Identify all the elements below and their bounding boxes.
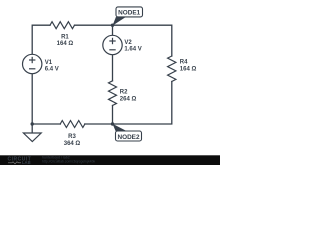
svg-text:NODE2: NODE2 bbox=[117, 134, 139, 141]
resistor R2 bbox=[109, 81, 117, 106]
svg-text:V1: V1 bbox=[45, 60, 53, 66]
resistor R4 bbox=[168, 56, 176, 82]
svg-text:R4: R4 bbox=[180, 59, 188, 65]
voltage source V2 bbox=[103, 35, 122, 54]
svg-text:R3: R3 bbox=[68, 134, 76, 140]
footer bar bbox=[0, 155, 220, 165]
junction ground node bbox=[31, 122, 34, 125]
resistor R3 bbox=[60, 121, 85, 128]
wire R2 to bottom junction bbox=[112, 106, 114, 125]
svg-text:NODE1: NODE1 bbox=[118, 10, 140, 17]
svg-text:V2: V2 bbox=[124, 40, 132, 46]
junction node B bottom bbox=[111, 122, 114, 125]
svg-text:R2: R2 bbox=[120, 89, 128, 95]
wire V2 to R2 bbox=[112, 55, 114, 81]
svg-text:6.4 V: 6.4 V bbox=[45, 66, 59, 72]
ground bbox=[23, 133, 41, 142]
svg-text:164 Ω: 164 Ω bbox=[57, 41, 74, 47]
node NODE1 flag bbox=[113, 7, 143, 26]
ground stub bbox=[31, 124, 33, 133]
voltage source V1 bbox=[23, 54, 42, 73]
wire R1 to top-right corner bbox=[75, 25, 172, 56]
wire R3 to ground junction bbox=[32, 74, 60, 124]
resistor R1 bbox=[50, 22, 75, 29]
svg-text:164 Ω: 164 Ω bbox=[180, 66, 197, 72]
junction node A top bbox=[111, 24, 114, 27]
svg-text:LAB: LAB bbox=[22, 160, 31, 165]
svg-text:http://circuitlab.com/c6qrcgeh: http://circuitlab.com/c6qrcgehqk4bk bbox=[42, 159, 95, 163]
svg-text:364 Ω: 364 Ω bbox=[64, 141, 81, 147]
svg-text:R1: R1 bbox=[61, 34, 69, 40]
canvas background bbox=[0, 0, 220, 165]
svg-text:1.64 V: 1.64 V bbox=[124, 46, 141, 52]
node NODE2 flag bbox=[113, 124, 142, 141]
wire R4 to bottom wire bbox=[85, 82, 172, 125]
wire middle branch top bbox=[112, 25, 114, 35]
CircuitLab logo bbox=[8, 157, 32, 165]
svg-text:264 Ω: 264 Ω bbox=[120, 96, 137, 102]
wire top-left corner to R1 bbox=[32, 25, 50, 54]
